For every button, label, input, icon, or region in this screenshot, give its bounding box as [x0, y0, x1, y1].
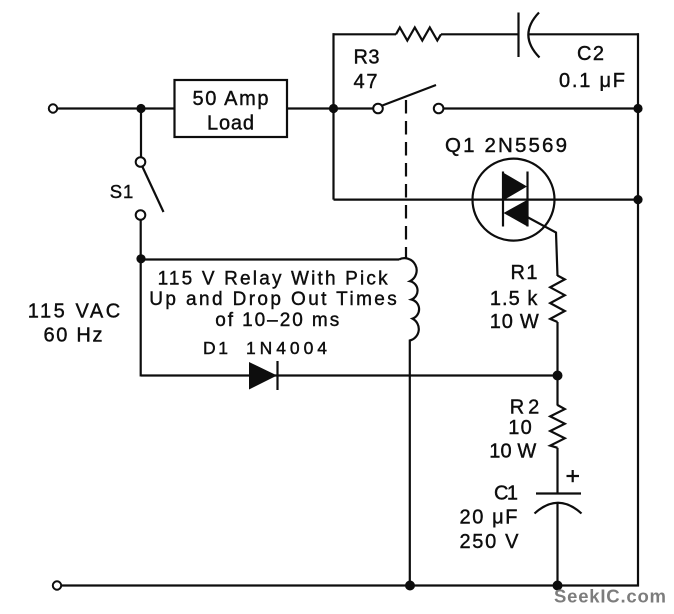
wire: top wire right segment: [529, 33, 639, 35]
svg-text:1.5 k: 1.5 k: [490, 288, 539, 310]
svg-text:D1: D1: [203, 338, 228, 358]
relay contact blade: [382, 85, 436, 106]
wire: D1 row: [141, 374, 558, 376]
relay contact switch pole circle: [373, 104, 383, 114]
relay coil: [399, 258, 419, 586]
dashed mechanical link line: [405, 100, 407, 258]
load box: [175, 80, 288, 137]
wire: R1 to junction: [556, 322, 558, 376]
plus sign: [567, 475, 580, 477]
svg-text:S1: S1: [110, 181, 134, 202]
diode D1 triangle: [249, 362, 277, 390]
capacitor C2 flat plate: [517, 13, 519, 58]
svg-text:47: 47: [354, 71, 378, 93]
wire: left branch vertical (snubber loop left side): [332, 33, 334, 199]
svg-text:115 V Relay With Pick: 115 V Relay With Pick: [158, 269, 389, 290]
svg-text:10 W: 10 W: [489, 441, 536, 463]
switch S1 top circle: [136, 157, 146, 167]
wire: top wire left segment: [333, 33, 397, 35]
wire: contact row left segment: [334, 107, 374, 109]
triac lower triangle: [504, 200, 528, 227]
relay contact switch throw circle: [434, 104, 444, 114]
wire: relay coil top lead: [141, 258, 399, 260]
triac Q1 circle: [473, 159, 555, 241]
junction: right rail / contact row: [633, 104, 642, 113]
wire: left rail upper (junction to S1): [140, 109, 142, 158]
wire: triac row: [334, 199, 639, 201]
resistor R1 zigzag: [550, 276, 565, 323]
switch S1 blade: [142, 167, 163, 213]
capacitor C1 top plate: [536, 492, 581, 494]
wire: load box to snubber branch junction: [287, 107, 334, 109]
svg-text:Load: Load: [207, 113, 254, 135]
svg-text:0.1 μF: 0.1 μF: [559, 70, 625, 92]
wire: right rail: [637, 33, 639, 586]
svg-text:10: 10: [508, 417, 532, 439]
gate lead: [524, 215, 558, 276]
svg-text:60 Hz: 60 Hz: [44, 324, 103, 346]
resistor R2 zigzag: [550, 405, 565, 448]
svg-text:Q1 2N5569: Q1 2N5569: [445, 134, 567, 157]
triac right bar: [526, 172, 528, 227]
svg-text:10 W: 10 W: [490, 311, 539, 333]
junction: relay coil row: [136, 254, 145, 263]
capacitor C1 curved plate: [535, 503, 582, 514]
svg-text:C1: C1: [494, 483, 518, 505]
diode D1 cathode bar: [276, 361, 278, 390]
switch S1 bottom circle: [136, 210, 146, 220]
svg-text:R1: R1: [511, 262, 538, 284]
wire: top wire middle segment: [441, 33, 519, 35]
wire: T1 to load box: [58, 107, 175, 109]
junction: C1 / bottom rail: [553, 581, 563, 591]
junction: snubber branch junction: [329, 104, 338, 113]
wire: left rail lower (S1 to D1 row): [140, 220, 142, 377]
bottom rail: [57, 584, 639, 586]
wire: R2 to C1: [556, 448, 558, 494]
wire: triac row? no - R2 top lead: [556, 376, 558, 406]
svg-text:Up and Drop Out Times: Up and Drop Out Times: [149, 289, 397, 310]
wire: C1 to bottom rail: [556, 503, 558, 587]
terminal T1 (top left input): [49, 104, 57, 112]
terminal T2 (bottom left): [53, 581, 61, 589]
triac left bar: [502, 172, 504, 227]
wire: contact row right segment: [443, 107, 638, 109]
junction: right rail / triac row: [633, 195, 642, 204]
resistor R3 zigzag: [396, 28, 441, 41]
junction: coil return / bottom rail: [405, 581, 415, 591]
svg-text:SeekIC.com: SeekIC.com: [554, 586, 666, 607]
capacitor C2 curved plate: [528, 13, 539, 58]
junction: top-left rail junction: [136, 104, 145, 113]
triac upper triangle: [503, 173, 527, 201]
svg-text:C2: C2: [577, 43, 604, 65]
junction: gate network / D1 row: [553, 371, 563, 381]
svg-text:250 V: 250 V: [460, 531, 520, 553]
svg-text:20 μF: 20 μF: [460, 506, 518, 528]
svg-text:R3: R3: [354, 47, 380, 69]
